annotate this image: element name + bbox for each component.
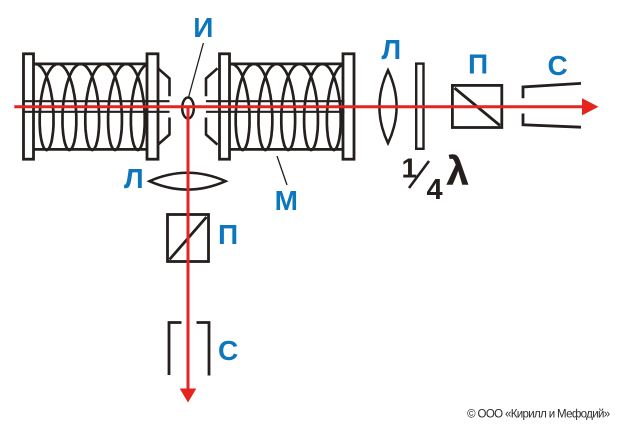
leader line to label M [277, 156, 287, 185]
svg-text:Л: Л [124, 163, 144, 194]
quarter-wave plate value label 1/4 [402, 153, 443, 206]
solenoid A (left) right flange [147, 54, 158, 159]
solenoid A (left) helix winding [29, 64, 154, 150]
solenoid M entry cone with aperture [206, 68, 218, 144]
solenoid M (right) body top edge [230, 63, 344, 66]
polarizer P cube (horizontal branch) [452, 85, 501, 127]
lens L (horizontal branch, vertical biconvex) [379, 70, 396, 143]
svg-text:λ: λ [447, 150, 469, 194]
polarizer P cube (vertical branch) [168, 215, 209, 262]
source It (atom source) ellipse [182, 98, 194, 119]
solenoid A exit cone with aperture [158, 68, 170, 144]
svg-text:С: С [218, 335, 238, 366]
solenoid M (right) left flange [220, 54, 230, 159]
solenoid M (right) helix winding [225, 64, 350, 150]
svg-text:М: М [275, 185, 298, 216]
screen S (vertical branch) [169, 323, 209, 376]
svg-text:Л: Л [382, 34, 402, 65]
solenoid A (left) left flange [24, 54, 34, 159]
solenoid M beam tube lines [206, 100, 345, 102]
screen S (horizontal branch) [523, 83, 581, 127]
solenoid M (right) body bottom edge [230, 148, 344, 151]
svg-text:П: П [218, 219, 238, 250]
svg-text:4: 4 [427, 174, 443, 206]
lens L (vertical branch, horizontal biconvex) [150, 173, 226, 190]
svg-text:И: И [193, 12, 213, 43]
vertical red beam [187, 107, 190, 391]
horizontal red beam [14, 105, 584, 108]
solenoid A beam tube lines [25, 100, 170, 102]
quarter-wave plate [416, 64, 423, 149]
svg-text:С: С [548, 50, 568, 81]
solenoid A (left) body top edge [34, 63, 148, 66]
leader line to label I [189, 43, 204, 97]
horizontal beam arrowhead [582, 98, 599, 115]
vertical beam arrowhead [180, 389, 197, 403]
svg-text:© ООО «Кирилл и Мефодий»: © ООО «Кирилл и Мефодий» [467, 409, 610, 421]
solenoid A (left) body bottom edge [34, 148, 148, 151]
svg-text:П: П [468, 49, 488, 80]
solenoid M (right) right flange [343, 54, 354, 159]
